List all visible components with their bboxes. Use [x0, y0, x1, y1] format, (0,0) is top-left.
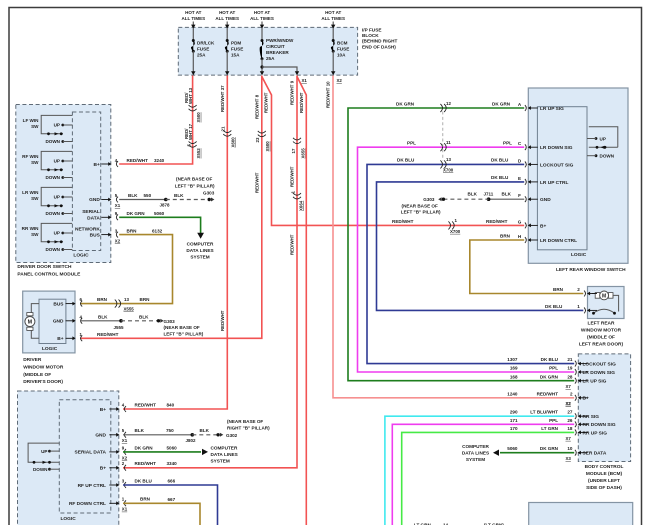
svg-text:BRN: BRN: [140, 297, 151, 302]
svg-text:SYSTEM: SYSTEM: [211, 459, 230, 464]
wire BRN pin H LR DOWN CTRL to left rear motor 2: [470, 240, 584, 294]
wire BRN 6132 network bus to driver window motor: [80, 235, 173, 304]
svg-text:G302: G302: [226, 433, 238, 438]
svg-text:17: 17: [291, 148, 296, 153]
wire DK BLU pin E LR UP CTRL to left rear motor 1: [377, 182, 584, 311]
wire DK BLU pin D to BCM LOCKOUT SIG: [367, 164, 574, 363]
svg-text:BLK: BLK: [98, 314, 108, 319]
svg-text:DK GRN: DK GRN: [127, 211, 146, 216]
svg-text:RED/WHT: RED/WHT: [537, 391, 559, 396]
svg-text:DK BLU: DK BLU: [541, 357, 559, 362]
svg-text:J555: J555: [114, 325, 125, 330]
svg-text:X600: X600: [230, 137, 235, 148]
svg-text:5060: 5060: [507, 446, 518, 451]
svg-text:COMPUTER: COMPUTER: [211, 446, 238, 451]
svg-text:1307: 1307: [507, 357, 518, 362]
svg-text:LR DOWN CTRL: LR DOWN CTRL: [540, 238, 577, 244]
svg-text:PANEL CONTROL MODULE: PANEL CONTROL MODULE: [17, 272, 81, 278]
connector X555 on BRN wire: [115, 300, 117, 308]
svg-text:25A: 25A: [197, 52, 206, 57]
svg-text:M: M: [602, 293, 606, 299]
wire DK GRN 5060 to computer data lines: [119, 217, 200, 233]
svg-text:DOWN: DOWN: [33, 467, 48, 472]
svg-text:BLK: BLK: [200, 428, 210, 433]
svg-text:RED/WHT 10: RED/WHT 10: [325, 81, 330, 108]
svg-text:13: 13: [446, 157, 451, 162]
svg-text:DK BLU: DK BLU: [491, 175, 509, 180]
svg-text:SYSTEM: SYSTEM: [466, 457, 485, 462]
svg-text:FUSE: FUSE: [197, 46, 209, 51]
svg-text:21: 21: [221, 126, 226, 131]
svg-text:LEFT REAR WINDOW SWITCH: LEFT REAR WINDOW SWITCH: [556, 267, 626, 273]
svg-text:RED/WHT: RED/WHT: [299, 92, 304, 113]
svg-text:RED/WHT: RED/WHT: [392, 219, 414, 224]
svg-text:LF WIN: LF WIN: [23, 118, 40, 123]
wire RED/WHT 37 column B from PDM fuse to front pass door switch B+ pin 4: [123, 76, 227, 410]
svg-text:LEFT REAR: LEFT REAR: [588, 321, 615, 327]
svg-text:FUSE: FUSE: [337, 46, 349, 51]
connector 13 X700 on DK BLU wire: [440, 160, 442, 168]
junction J878: [164, 198, 168, 202]
svg-text:LOGIC: LOGIC: [61, 516, 77, 522]
dashed link between connectors 12-11-13: [442, 112, 444, 161]
svg-text:WHT 13: WHT 13: [188, 87, 193, 104]
svg-text:G303: G303: [164, 319, 176, 324]
svg-text:25A: 25A: [266, 56, 275, 61]
svg-text:DOWN: DOWN: [45, 247, 60, 252]
svg-text:X1: X1: [302, 78, 308, 83]
svg-text:B+: B+: [94, 162, 100, 168]
svg-text:290: 290: [510, 410, 518, 415]
svg-text:X2: X2: [337, 78, 343, 83]
svg-text:COMPUTER: COMPUTER: [187, 241, 214, 246]
svg-text:PPL: PPL: [549, 366, 558, 371]
svg-text:MODULE (BCM): MODULE (BCM): [586, 471, 623, 477]
svg-text:750: 750: [166, 428, 174, 433]
svg-text:SW: SW: [31, 232, 39, 237]
svg-text:5060: 5060: [154, 211, 165, 216]
svg-text:RIGHT "B" PILLAR): RIGHT "B" PILLAR): [227, 426, 270, 431]
svg-text:(NEAR BASE OF: (NEAR BASE OF: [164, 325, 200, 330]
fuse DR/LCK 25A: [192, 39, 195, 42]
svg-text:(NEAR BASE OF: (NEAR BASE OF: [402, 203, 438, 208]
svg-text:RED/WHT: RED/WHT: [263, 92, 268, 113]
svg-text:I/P FUSE: I/P FUSE: [362, 28, 381, 33]
svg-text:RED/WHT: RED/WHT: [290, 234, 295, 255]
svg-text:BLK: BLK: [502, 192, 512, 197]
svg-text:RED/WHT 9: RED/WHT 9: [290, 80, 295, 105]
svg-text:SYSTEM: SYSTEM: [190, 254, 209, 259]
svg-text:DOWN: DOWN: [45, 139, 60, 144]
connector X500 on column A: [189, 105, 197, 107]
svg-text:X700: X700: [450, 229, 461, 234]
wire RED/WHT column D branch off-page bottom: [297, 77, 306, 525]
svg-text:BRN: BRN: [553, 287, 564, 292]
connector X664 on column D: [293, 193, 301, 195]
svg-text:ALL TIMES: ALL TIMES: [250, 16, 274, 21]
svg-text:X555: X555: [124, 306, 135, 311]
svg-text:PWR/WNDW: PWR/WNDW: [266, 38, 294, 43]
svg-text:X664: X664: [298, 200, 303, 211]
svg-text:F: F: [518, 193, 521, 198]
wire RED/WHT 9 column D from breaker branch to front pass door switch B+ pin 2: [123, 76, 297, 468]
svg-text:BRN: BRN: [127, 228, 138, 233]
svg-text:DK BLU: DK BLU: [397, 158, 415, 163]
svg-text:6132: 6132: [152, 228, 163, 233]
svg-text:(NEAR BASE OF: (NEAR BASE OF: [176, 177, 212, 182]
svg-text:19: 19: [567, 366, 573, 371]
svg-text:BLK: BLK: [468, 192, 478, 197]
svg-text:GND: GND: [89, 197, 100, 203]
svg-text:LOGIC: LOGIC: [571, 252, 587, 258]
wire RED/WHT 13 column A from DR/LCK fuse to driver door switch B+: [119, 76, 192, 165]
svg-text:B+: B+: [100, 407, 106, 413]
svg-text:ALL TIMES: ALL TIMES: [181, 16, 205, 21]
wire BLK 750 to ground: [123, 434, 192, 436]
svg-text:G303: G303: [203, 191, 215, 196]
svg-text:SIDE OF DASH): SIDE OF DASH): [586, 485, 622, 491]
svg-text:UP: UP: [54, 159, 60, 164]
wire DK BLU 666 off-page: [123, 485, 218, 525]
svg-text:HOT AT: HOT AT: [254, 10, 270, 15]
junction J711: [487, 197, 491, 201]
svg-text:UP: UP: [54, 195, 60, 200]
svg-text:550: 550: [144, 193, 152, 198]
svg-text:G303: G303: [423, 197, 435, 202]
wire RED/WHT column C branch to left rear window switch B+ pin G: [262, 77, 524, 226]
svg-text:X655: X655: [300, 148, 305, 159]
svg-text:RED/WHT: RED/WHT: [97, 332, 119, 337]
connector X553 on column A: [189, 141, 197, 143]
svg-text:DATA LINES: DATA LINES: [462, 450, 489, 455]
svg-text:LEFT REAR DOOR): LEFT REAR DOOR): [579, 342, 624, 348]
ground G303 near base of left B pillar (motor): [157, 319, 160, 322]
connector X600 on column B: [223, 130, 231, 132]
svg-text:NETWORK: NETWORK: [75, 227, 100, 233]
svg-text:E: E: [518, 176, 521, 181]
svg-text:LOCKOUT SIG: LOCKOUT SIG: [583, 362, 617, 368]
svg-text:DK GRN: DK GRN: [540, 446, 559, 451]
svg-text:28: 28: [567, 374, 573, 379]
svg-text:169: 169: [510, 366, 518, 371]
svg-text:DK BLU: DK BLU: [135, 478, 153, 483]
driver door switch panel control module box: [16, 105, 111, 263]
wire RED/WHT 10 column E from BCM fuse to BCM B+ pin 2: [333, 76, 574, 398]
connector 11 on PPL wire: [440, 143, 442, 151]
svg-text:LR DOWN SIG: LR DOWN SIG: [583, 370, 616, 376]
svg-text:DK GRN: DK GRN: [540, 374, 559, 379]
svg-text:RED/WHT 37: RED/WHT 37: [220, 85, 225, 112]
svg-text:BUS: BUS: [53, 301, 64, 307]
wire DK GRN 5060 to computer data lines: [123, 451, 201, 453]
svg-text:BLK: BLK: [135, 428, 145, 433]
svg-text:G: G: [518, 219, 522, 224]
svg-text:10: 10: [567, 446, 573, 451]
motor M symbol of left rear window motor: [595, 293, 600, 299]
ground G303 near base of left B pillar: [208, 198, 211, 201]
svg-text:LEFT "B" PILLAR): LEFT "B" PILLAR): [175, 183, 215, 188]
svg-text:BODY CONTROL: BODY CONTROL: [585, 464, 624, 470]
wire feed into fuse block: [226, 22, 228, 27]
svg-text:J711: J711: [484, 192, 494, 197]
svg-text:12: 12: [446, 101, 451, 106]
wire DK GRN pin A to BCM LR UP SIG: [348, 108, 574, 381]
svg-text:BREAKER: BREAKER: [266, 50, 289, 55]
svg-text:DK GRN: DK GRN: [135, 445, 154, 450]
svg-text:3240: 3240: [154, 158, 165, 163]
svg-text:ALL TIMES: ALL TIMES: [321, 16, 345, 21]
svg-text:SW: SW: [31, 124, 39, 129]
junction J802: [191, 433, 195, 437]
svg-text:RR WIN: RR WIN: [22, 226, 40, 231]
svg-text:DRIVER DOOR SWITCH: DRIVER DOOR SWITCH: [17, 264, 72, 270]
svg-text:WINDOW MOTOR: WINDOW MOTOR: [23, 364, 64, 370]
svg-text:SW: SW: [31, 196, 39, 201]
svg-text:PPL: PPL: [549, 418, 558, 423]
svg-text:DATA LINES: DATA LINES: [186, 248, 213, 253]
pin 2 of left rear window motor: [589, 293, 597, 295]
svg-text:DOWN: DOWN: [600, 154, 615, 159]
junction J555: [119, 319, 123, 323]
svg-text:DRIVER'S DOOR): DRIVER'S DOOR): [23, 379, 63, 385]
left rear window switch box: [528, 88, 628, 263]
wire DK GRN 5060 SER DATA to computer data lines: [500, 452, 574, 454]
svg-text:DOWN: DOWN: [45, 175, 60, 180]
svg-text:RR UP SIG: RR UP SIG: [583, 430, 608, 436]
svg-text:BRN: BRN: [500, 233, 511, 238]
svg-text:HOT AT: HOT AT: [185, 10, 201, 15]
svg-text:DK GRN: DK GRN: [492, 102, 511, 107]
svg-text:ALL TIMES: ALL TIMES: [215, 16, 239, 21]
I/P fuse block box: [178, 27, 357, 75]
svg-text:X553: X553: [196, 148, 201, 159]
logic box of passenger door switch module: [59, 400, 111, 513]
wire BLK pin F GND to ground G303 via J711: [489, 198, 525, 200]
wire RED/WHT 8 column C from breaker to driver window motor B+: [80, 76, 262, 339]
svg-text:27: 27: [567, 410, 573, 415]
svg-text:LEFT "B" PILLAR): LEFT "B" PILLAR): [401, 210, 441, 215]
svg-text:X7: X7: [566, 384, 572, 389]
svg-text:26: 26: [567, 418, 573, 423]
wire feed into fuse block: [332, 22, 334, 27]
svg-text:168: 168: [510, 374, 518, 379]
svg-text:RF DOWN CTRL: RF DOWN CTRL: [69, 501, 106, 507]
svg-text:X500: X500: [265, 141, 270, 152]
fuse PDM 15A: [226, 39, 229, 42]
ground G303 for left rear window switch: [442, 198, 445, 201]
svg-text:X1: X1: [122, 507, 128, 512]
svg-text:WHT 17: WHT 17: [188, 123, 193, 140]
svg-text:X2: X2: [566, 401, 572, 406]
svg-text:BUS: BUS: [90, 233, 101, 239]
svg-text:15A: 15A: [231, 52, 240, 57]
wire PPL pin C to BCM LR DOWN SIG: [358, 147, 575, 372]
wire LT BLU/WHT 290 RR SIG off-page: [385, 416, 574, 525]
svg-text:UP: UP: [41, 449, 47, 454]
svg-text:(MIDDLE OF: (MIDDLE OF: [587, 335, 615, 341]
connector 12 on DK GRN wire: [440, 104, 442, 112]
svg-text:RED/WHT: RED/WHT: [127, 158, 149, 163]
svg-text:(MIDDLE OF: (MIDDLE OF: [23, 372, 51, 378]
svg-text:WINDOW MOTOR: WINDOW MOTOR: [581, 328, 622, 334]
svg-text:COMPUTER: COMPUTER: [462, 444, 489, 449]
svg-text:LR UP CTRL: LR UP CTRL: [540, 180, 568, 186]
svg-text:RED/WHT: RED/WHT: [135, 461, 157, 466]
commutator arc of left rear window motor: [594, 309, 615, 313]
svg-text:LEFT "B" PILLAR): LEFT "B" PILLAR): [164, 332, 204, 337]
wire BLK to ground G303: [80, 320, 121, 322]
svg-text:BLK: BLK: [139, 314, 149, 319]
svg-text:(BEHIND RIGHT: (BEHIND RIGHT: [362, 39, 398, 44]
svg-text:J878: J878: [160, 202, 171, 207]
svg-text:GND: GND: [540, 197, 551, 203]
svg-text:(UNDER LEFT: (UNDER LEFT: [588, 478, 620, 484]
wire PPL 171 RR DOWN SIG off-page: [392, 424, 574, 525]
svg-text:RED/WHT: RED/WHT: [220, 310, 225, 331]
svg-text:LT BLU/WHT: LT BLU/WHT: [530, 410, 558, 415]
svg-text:X700: X700: [443, 167, 454, 172]
svg-text:X7: X7: [566, 436, 572, 441]
svg-text:J802: J802: [186, 438, 197, 443]
switch UP/DOWN contacts of left rear window switch: [589, 127, 618, 148]
connector 1 X700 on RED/WHT wire: [448, 221, 450, 229]
svg-text:PPL: PPL: [503, 141, 512, 146]
wire LT GRN 170 RR UP SIG off-page: [402, 432, 575, 525]
svg-text:PDM: PDM: [231, 40, 241, 45]
svg-text:LOCKOUT SIG: LOCKOUT SIG: [540, 162, 574, 168]
logic box of driver window motor: [39, 299, 66, 343]
svg-text:X3: X3: [566, 456, 572, 461]
svg-text:LR DOWN SIG: LR DOWN SIG: [540, 145, 573, 151]
svg-text:X2: X2: [115, 238, 121, 243]
svg-text:171: 171: [510, 418, 518, 423]
wire feed into fuse block: [192, 22, 194, 27]
circuit breaker PWR/WNDW 25A: [261, 39, 264, 42]
ground G302 near base of right B pillar: [216, 433, 219, 436]
connector X655 on column D: [293, 138, 301, 140]
svg-text:UP: UP: [54, 231, 60, 236]
svg-text:GND: GND: [53, 319, 64, 325]
svg-text:SERIAL: SERIAL: [82, 209, 100, 215]
svg-text:UP: UP: [600, 136, 606, 141]
svg-text:23: 23: [255, 137, 260, 142]
svg-text:END OF DASH): END OF DASH): [362, 44, 396, 49]
svg-text:X1: X1: [115, 203, 121, 208]
svg-text:BRN: BRN: [97, 297, 108, 302]
svg-text:18: 18: [567, 426, 573, 431]
svg-text:1240: 1240: [507, 391, 518, 396]
svg-text:RR SIG: RR SIG: [583, 414, 600, 420]
wire feed into fuse block: [261, 22, 263, 27]
svg-text:BLK: BLK: [174, 193, 184, 198]
svg-text:RED/WHT: RED/WHT: [486, 219, 508, 224]
svg-text:HOT AT: HOT AT: [325, 10, 341, 15]
body control module BCM box: [578, 354, 630, 462]
svg-text:BRN: BRN: [140, 496, 151, 501]
right rear window switch box cut at page bottom: [529, 503, 633, 525]
svg-text:RF WIN: RF WIN: [22, 154, 39, 159]
svg-text:DOWN: DOWN: [45, 211, 60, 216]
svg-text:(NEAR BASE OF: (NEAR BASE OF: [227, 419, 263, 424]
svg-text:LR WIN: LR WIN: [22, 190, 39, 195]
svg-text:10A: 10A: [337, 52, 346, 57]
svg-text:11: 11: [446, 140, 451, 145]
svg-text:LR UP SIG: LR UP SIG: [583, 379, 607, 385]
svg-text:DATA LINES: DATA LINES: [211, 452, 238, 457]
svg-text:B+: B+: [100, 466, 106, 472]
connector X500 on column C: [258, 131, 266, 133]
svg-text:UP: UP: [54, 123, 60, 128]
svg-text:13: 13: [124, 297, 129, 302]
svg-text:SER DATA: SER DATA: [583, 451, 607, 457]
svg-text:21: 21: [567, 357, 573, 362]
driver window motor box: [23, 291, 75, 353]
svg-text:840: 840: [167, 402, 175, 407]
svg-text:DRIVER: DRIVER: [23, 357, 42, 363]
svg-text:SERIAL DATA: SERIAL DATA: [75, 450, 107, 456]
svg-text:DATA: DATA: [87, 216, 100, 222]
svg-text:HOT AT: HOT AT: [219, 10, 235, 15]
svg-text:RED/WHT 8: RED/WHT 8: [254, 94, 259, 119]
svg-text:1: 1: [577, 304, 580, 309]
wire BLK 550 to ground: [119, 199, 166, 201]
svg-text:RF UP CTRL: RF UP CTRL: [78, 483, 106, 489]
fuse BCM 10A: [332, 39, 335, 42]
svg-text:3340: 3340: [167, 461, 178, 466]
wire BLK dashed to G303: [166, 199, 209, 201]
junction on breaker output: [260, 65, 263, 68]
svg-text:5060: 5060: [167, 445, 178, 450]
svg-text:170: 170: [510, 426, 518, 431]
svg-text:B+: B+: [583, 396, 589, 402]
svg-text:GND: GND: [95, 433, 106, 439]
svg-text:B+: B+: [540, 223, 546, 229]
svg-text:666: 666: [168, 478, 176, 483]
left rear window motor box: [588, 287, 625, 319]
svg-text:B+: B+: [57, 336, 63, 342]
svg-text:DK BLU: DK BLU: [545, 304, 563, 309]
motor M symbol: [27, 313, 33, 316]
svg-text:X1: X1: [122, 438, 128, 443]
svg-text:DR/LCK: DR/LCK: [197, 40, 215, 45]
svg-text:RR DOWN SIG: RR DOWN SIG: [583, 422, 616, 428]
svg-text:BCM: BCM: [337, 40, 348, 45]
svg-text:DK GRN: DK GRN: [396, 102, 415, 107]
wire branch inside fuse block: [262, 67, 297, 72]
svg-text:LR UP SIG: LR UP SIG: [540, 106, 564, 112]
svg-text:RED/WHT: RED/WHT: [135, 402, 157, 407]
svg-text:X2: X2: [122, 455, 128, 460]
svg-text:RED/WHT: RED/WHT: [254, 172, 259, 193]
svg-text:PPL: PPL: [407, 141, 416, 146]
svg-text:LOGIC: LOGIC: [42, 346, 58, 352]
svg-text:BLOCK: BLOCK: [362, 33, 379, 38]
front passenger door switch module box: [18, 391, 119, 525]
svg-text:X500: X500: [196, 112, 201, 123]
wire BRN 667 off-page: [123, 503, 200, 525]
svg-text:LT GRN: LT GRN: [541, 426, 558, 431]
svg-text:2: 2: [577, 287, 580, 292]
svg-text:M: M: [28, 320, 33, 326]
svg-text:667: 667: [168, 497, 176, 502]
svg-text:BLK: BLK: [128, 193, 138, 198]
svg-text:2: 2: [570, 391, 573, 396]
svg-text:SW: SW: [31, 160, 39, 165]
svg-text:FUSE: FUSE: [231, 46, 243, 51]
svg-text:DK BLU: DK BLU: [491, 158, 509, 163]
svg-text:RED/WHT: RED/WHT: [290, 166, 295, 187]
logic box of left rear window switch: [537, 107, 587, 250]
